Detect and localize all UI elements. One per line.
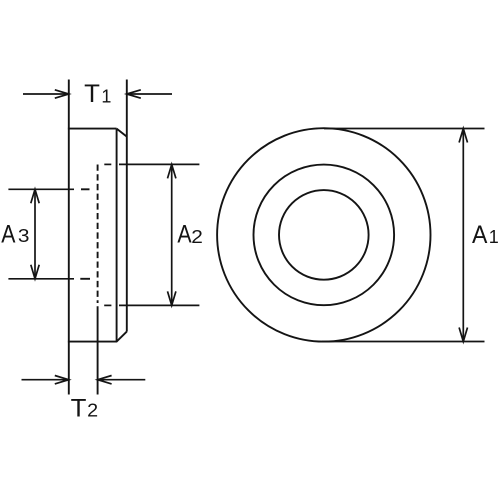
counterbore floor extension to T2 (solid): [97, 306, 99, 394]
A2 down arrowhead: [168, 291, 176, 305]
hole hidden line top dash: [81, 188, 90, 190]
side view chamfer edge line: [116, 129, 118, 342]
label A3: [1, 221, 29, 249]
svg-text:A: A: [472, 221, 488, 249]
side view bottom edge: [68, 341, 117, 343]
svg-text:2: 2: [191, 227, 203, 247]
A3 up arrowhead: [31, 189, 39, 203]
A2 top extension line dash: [104, 163, 111, 165]
A2 dimension line: [171, 164, 173, 305]
svg-text:1: 1: [101, 86, 111, 106]
A3 dimension line: [34, 189, 36, 278]
A3 top extension line: [8, 188, 74, 190]
label A2: [177, 220, 203, 248]
side view bottom chamfer: [117, 332, 127, 342]
A2 top extension line: [119, 163, 199, 165]
A1 down arrowhead: [459, 328, 467, 342]
svg-text:3: 3: [18, 226, 30, 246]
counterbore floor hidden line (dashed): [97, 165, 99, 304]
A1 dimension line: [462, 129, 464, 342]
T2 dimension left arrow line: [22, 379, 69, 381]
A3 down arrowhead: [31, 265, 39, 279]
T1 right arrowhead: [127, 90, 141, 98]
T1 dimension right arrow line: [127, 93, 172, 95]
A1 bottom extension line: [322, 341, 485, 343]
svg-text:A: A: [1, 221, 15, 249]
front view inner circle: [279, 190, 369, 280]
front view outer circle: [217, 128, 430, 341]
T2 right arrowhead: [98, 376, 112, 384]
side view right edge + extension line: [126, 80, 128, 332]
svg-text:T: T: [71, 395, 87, 423]
label T2: [71, 395, 99, 423]
svg-text:T: T: [84, 80, 100, 108]
T1 dimension left arrow line: [23, 93, 69, 95]
hole hidden line bottom dash: [80, 278, 90, 280]
label A1: [472, 221, 499, 249]
label T1: [84, 80, 111, 108]
side view top chamfer: [117, 129, 127, 137]
T1 left arrowhead: [55, 90, 69, 98]
A2 bottom extension line: [119, 304, 199, 306]
side view top edge: [68, 128, 117, 130]
A1 top extension line: [324, 128, 485, 130]
A2 up arrowhead: [168, 164, 176, 178]
front view middle circle: [253, 165, 394, 306]
side view left edge + extension line: [68, 80, 70, 395]
T2 dimension right arrow line: [98, 379, 146, 381]
svg-text:1: 1: [489, 227, 499, 247]
A1 up arrowhead: [459, 129, 467, 143]
T2 left arrowhead: [55, 376, 69, 384]
svg-text:2: 2: [87, 400, 98, 420]
A3 bottom extension line: [8, 278, 74, 280]
A2 bottom extension line dash: [104, 304, 111, 306]
svg-text:A: A: [177, 220, 191, 248]
